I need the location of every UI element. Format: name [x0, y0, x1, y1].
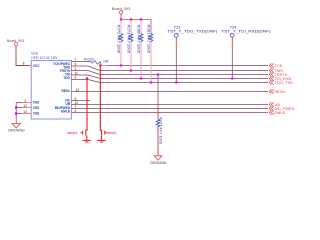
wire EMLE row: [71, 112, 74, 114]
tamper pad tamp0: [67, 79, 90, 143]
svg-text:VSS: VSS: [33, 106, 39, 110]
junction dot R272: [120, 64, 122, 66]
junction dot T24: [231, 77, 233, 79]
wire UB row: [71, 104, 74, 106]
svg-text:VSS: VSS: [33, 112, 39, 116]
power symbol Board_3V3 (top): [112, 6, 131, 14]
svg-text:0R: 0R: [103, 59, 108, 64]
wire T23 to TDO: [175, 37, 177, 48]
svg-text:GROUND: GROUND: [8, 128, 25, 132]
svg-text:Board_3V3: Board_3V3: [112, 6, 131, 11]
junction dot R280: [140, 77, 142, 79]
wire TDO row: [71, 79, 74, 81]
off-page connector TDO_TXD: [269, 80, 273, 84]
wire MD_FWED row: [71, 108, 74, 110]
junction dot T23: [175, 81, 177, 83]
wire TDI row: [71, 74, 74, 76]
pin numbers: [23, 58, 79, 114]
svg-text:VSS: VSS: [33, 101, 39, 105]
svg-text:tamp1: tamp1: [107, 131, 117, 135]
svg-text:TST_Y_TDI_RXD(DNF): TST_Y_TDI_RXD(DNF): [222, 30, 272, 34]
off-page connector EMLE: [269, 110, 273, 114]
junction tamp0/TDI: [86, 77, 88, 79]
svg-text:VCC: VCC: [33, 64, 40, 68]
ground symbol bottom: [150, 156, 167, 165]
resistor R280 pullup: [136, 20, 143, 79]
svg-text:R281 4K7 1005: R281 4K7 1005: [146, 25, 150, 54]
svg-text:R277 4K7 1005: R277 4K7 1005: [158, 117, 162, 144]
wire NC row: [71, 100, 74, 102]
junction dot R273: [130, 69, 132, 71]
wire TCK pin 1 stub: [71, 61, 74, 63]
junction dots VSS: [15, 106, 17, 108]
wire power rail: [121, 14, 151, 33]
wire T24 to TDI: [231, 37, 233, 48]
svg-text:GROUND: GROUND: [150, 161, 167, 165]
off-page connector UB: [269, 102, 273, 106]
svg-text:R273 4K7 1005: R273 4K7 1005: [126, 25, 130, 54]
resistor R272 pullup: [116, 20, 123, 66]
off-page connector TRSTn: [269, 72, 273, 76]
resistor R128 0R: [84, 57, 109, 66]
svg-text:EMLE: EMLE: [274, 110, 285, 115]
junction dot R277: [157, 73, 159, 75]
resistor R273 pullup: [126, 20, 133, 71]
svg-text:8: 8: [23, 61, 25, 65]
wire VSS ground vertical: [15, 103, 17, 124]
svg-text:R272 4K7 1005: R272 4K7 1005: [116, 25, 120, 54]
svg-text:RESn: RESn: [61, 89, 70, 93]
svg-text:tamp0: tamp0: [67, 131, 77, 135]
junction tamp1/TCK: [99, 64, 101, 66]
off-page connector TCK: [269, 63, 273, 67]
off-page connector TMS: [269, 68, 273, 72]
svg-text:RESn: RESn: [274, 89, 284, 94]
wire VCC pin lead: [28, 65, 31, 67]
svg-text:R128: R128: [84, 57, 94, 62]
wire RESn row: [71, 91, 74, 93]
resistor R281 pullup: [146, 25, 153, 83]
junction dots rail: [120, 18, 122, 20]
wire VSS stubs: [16, 103, 22, 114]
wire TRSTn row: [71, 70, 74, 72]
resistor R277 pulldown: [156, 75, 162, 156]
svg-text:TDO: TDO: [63, 76, 70, 80]
svg-text:1: 1: [75, 58, 77, 62]
wire TMS row: [71, 65, 74, 67]
wire TCK after R128: [102, 65, 109, 67]
svg-text:EMLE: EMLE: [61, 109, 70, 113]
wire Board_3V3 to VCC pin: [16, 46, 28, 66]
junction dot R281: [150, 81, 152, 83]
connector E3.4e HT37-107-01-T-DV: [31, 50, 71, 119]
tamper pad tamp1: [97, 66, 117, 143]
svg-text:TST_Y_TDO_TXD(DNF): TST_Y_TDO_TXD(DNF): [167, 30, 218, 34]
off-page connector MD_FWED: [269, 106, 273, 110]
off-page connector RESn: [269, 89, 273, 93]
ground symbol left: [8, 123, 25, 132]
svg-text:HT37-107-01-T-DV: HT37-107-01-T-DV: [31, 55, 57, 60]
svg-text:TDO_TXD: TDO_TXD: [274, 80, 293, 85]
off-page connector TDI_RXD: [269, 76, 273, 80]
test point T23: [167, 26, 218, 38]
test point T24: [222, 26, 272, 38]
power symbol Board_3V3 (left): [7, 38, 25, 46]
svg-text:R280 4K7 1005: R280 4K7 1005: [136, 25, 140, 54]
